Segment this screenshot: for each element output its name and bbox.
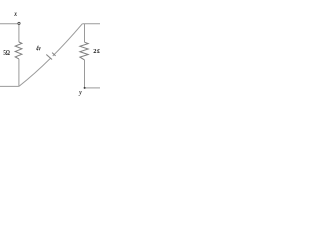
resistor R2 2Ω zigzag xyxy=(80,42,88,60)
wire left vertical lower xyxy=(18,59,20,87)
svg-text:2Ω: 2Ω xyxy=(93,48,100,55)
battery V1 short plate xyxy=(52,53,56,56)
wire bottom-left xyxy=(0,85,19,87)
node x terminal circle xyxy=(18,22,20,24)
wire left vertical upper xyxy=(18,24,20,42)
svg-text:5Ω: 5Ω xyxy=(3,50,10,57)
svg-text:x: x xyxy=(14,10,18,18)
svg-text:4v: 4v xyxy=(36,45,42,53)
wire right vertical upper xyxy=(84,24,86,42)
battery V1 long plate xyxy=(46,55,52,60)
node y terminal dot xyxy=(84,87,86,89)
battery gap xyxy=(50,56,53,59)
svg-text:y: y xyxy=(78,88,82,97)
wire bottom-right output xyxy=(85,87,100,89)
wire top-right xyxy=(82,23,100,25)
wire top-left input xyxy=(0,23,19,25)
wire right vertical lower xyxy=(84,60,86,88)
resistor R1 5Ω zigzag xyxy=(15,42,22,59)
wire diagonal branch xyxy=(19,24,82,87)
